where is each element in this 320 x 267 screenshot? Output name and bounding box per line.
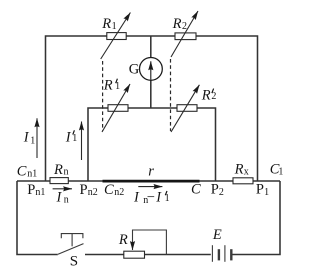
wire galvanometer branch upper bbox=[150, 36, 152, 58]
wire middle rail Cn1 to C1 bbox=[17, 180, 280, 182]
svg-text:Pn1: Pn1 bbox=[27, 182, 45, 198]
svg-text:Cn1: Cn1 bbox=[17, 164, 37, 180]
svg-text:S: S bbox=[70, 254, 78, 267]
arrow through R'2 bbox=[171, 85, 199, 132]
wire bottom rail switch to rheostat bbox=[85, 254, 124, 256]
battery plate short 2 bbox=[230, 249, 232, 260]
svg-text:P2: P2 bbox=[211, 182, 224, 198]
current arrow In minus I'1 bbox=[138, 186, 162, 188]
svg-text:R: R bbox=[118, 232, 128, 248]
svg-text:C: C bbox=[191, 182, 201, 198]
rheostat wiper loop with arrow bbox=[133, 230, 167, 255]
resistor R'2 box bbox=[177, 105, 197, 112]
arrow through R1 bbox=[101, 13, 131, 60]
resistor R2 box bbox=[175, 33, 196, 40]
svg-text:In−I1: In−I1 bbox=[133, 189, 170, 206]
svg-text:Rx: Rx bbox=[234, 161, 249, 177]
galvanometer G circle bbox=[140, 58, 163, 81]
resistor Rn box bbox=[50, 178, 68, 184]
arrow through R'1 bbox=[102, 84, 130, 132]
svg-text:R2: R2 bbox=[201, 87, 217, 103]
wire battery to right drop up to C1 corner bbox=[232, 181, 281, 255]
svg-text:I1: I1 bbox=[23, 129, 35, 146]
wire left drop and bottom rail to switch bbox=[17, 181, 58, 255]
rheostat R box bbox=[124, 251, 145, 258]
svg-text:C1: C1 bbox=[270, 161, 284, 177]
svg-text:E: E bbox=[212, 227, 222, 243]
svg-text:P1: P1 bbox=[256, 182, 269, 198]
battery plate short 1 bbox=[218, 249, 220, 260]
dashed gang link R1-R'1 bbox=[102, 61, 104, 131]
current arrow I1 bbox=[36, 118, 38, 158]
current arrow In bbox=[53, 188, 72, 190]
resistor R'1 box bbox=[108, 105, 128, 112]
switch S blade bbox=[58, 244, 84, 255]
current arrow I'1 bbox=[81, 122, 83, 161]
battery plate long 1 bbox=[211, 245, 213, 262]
svg-text:Rn: Rn bbox=[53, 162, 69, 178]
svg-text:R2: R2 bbox=[172, 16, 187, 32]
wire outer loop: Pn1 up, top rail, down to P1 bbox=[46, 36, 258, 181]
wire bottom rail rheostat to battery bbox=[145, 254, 211, 256]
galvanometer needle arrow bbox=[150, 61, 152, 79]
svg-text:G: G bbox=[129, 61, 140, 77]
svg-text:r: r bbox=[148, 164, 154, 180]
wire inner loop: Pn2 up, second rail, down to P2 bbox=[88, 108, 216, 181]
dashed gang link R2-R'2 bbox=[170, 59, 172, 131]
switch S handle stem bbox=[71, 234, 73, 247]
svg-text:R1: R1 bbox=[101, 16, 116, 32]
arrow through R2 bbox=[171, 11, 198, 57]
svg-text:Pn2: Pn2 bbox=[80, 182, 98, 198]
svg-text:In: In bbox=[56, 190, 69, 206]
svg-text:I1: I1 bbox=[65, 129, 78, 145]
wire galvanometer branch lower bbox=[150, 80, 152, 108]
svg-text:Cn2: Cn2 bbox=[104, 182, 124, 198]
resistor R1 box bbox=[107, 33, 126, 40]
switch S handle bracket bbox=[61, 234, 83, 239]
resistance wire r (thick) bbox=[103, 180, 200, 183]
battery plate long 2 bbox=[224, 245, 226, 262]
resistor Rx box bbox=[233, 178, 253, 184]
